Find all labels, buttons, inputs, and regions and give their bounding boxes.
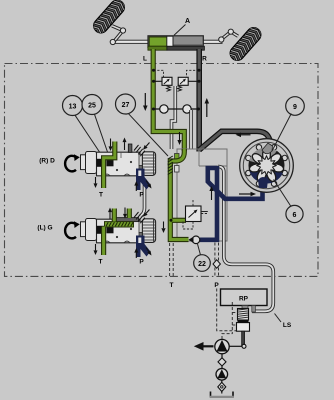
leader 9 (272, 114, 291, 152)
relief connection lines (152, 80, 201, 83)
crossover relief valve left (162, 77, 172, 91)
charge pump P2 (216, 369, 228, 381)
label T at boundary (170, 282, 174, 289)
label (L) G (37, 225, 52, 232)
wire: T dashed drop (170, 243, 174, 276)
brake lever navy (R)D (136, 169, 151, 191)
crossover relief valve right (178, 77, 189, 91)
svg-text:LS: LS (283, 322, 292, 329)
flow arrow down (L line) (143, 93, 148, 111)
rotation arrow (R)D (65, 154, 80, 171)
wire: green down to T (L)G (101, 227, 106, 256)
tie rod (112, 40, 222, 43)
rotation arrow (L)G (65, 221, 80, 238)
leader 6 (274, 180, 292, 207)
suction filter diamond (218, 382, 226, 391)
wire: gray pipe to steering unit (199, 131, 272, 153)
ribbed hose stub (L)G (134, 212, 145, 223)
flow arrow up at (R)D (123, 138, 127, 151)
leader 27 (129, 114, 169, 156)
label R (202, 56, 207, 63)
svg-text:P: P (139, 192, 144, 199)
flow arrow diagonal into (L)G (143, 210, 150, 217)
label LS with leader (275, 314, 292, 330)
label (R) D (39, 158, 55, 165)
ribbed hose stub (R)D (134, 145, 145, 156)
wheel motor (L)G (81, 219, 156, 243)
svg-text:T: T (99, 192, 103, 199)
priority valve rod (242, 331, 245, 346)
wire: filter to tank (221, 392, 223, 394)
test fitting 22 (189, 236, 200, 244)
flow arrow up (P in valve) (209, 186, 213, 200)
cylinder piston (167, 36, 173, 47)
svg-text:P: P (214, 282, 219, 289)
callout circle 22 (194, 255, 211, 272)
svg-text:A: A (185, 18, 190, 25)
callout circle 6 (286, 205, 303, 222)
cylinder bottom plate gray (167, 46, 205, 50)
wire: green stub 2 (L)G (127, 209, 132, 219)
wire: navy at fitting line (200, 238, 218, 243)
wire: LS pipe (218, 167, 273, 312)
gerotor steering metering unit (240, 139, 294, 193)
svg-text:25: 25 (88, 103, 96, 110)
right front tire (224, 23, 266, 68)
wire: L line green vertical from cylinder to elbow (153, 49, 184, 151)
wire: green stub 1 (L)G (112, 209, 117, 222)
svg-text:R: R (202, 56, 207, 63)
label L (143, 56, 147, 63)
flow arrow down (L)G port (123, 208, 127, 219)
callout circle 25 (82, 95, 102, 115)
wire: green elbow into hose 27 (170, 149, 184, 165)
label P at boundary (214, 282, 219, 289)
flushing valve box (170, 206, 202, 222)
label P under (R)D (139, 192, 144, 199)
check valve line (152, 105, 200, 113)
svg-text:22: 22 (198, 261, 206, 268)
wire: green ribbed hose vertical (170, 163, 188, 240)
wire: green banjo upper motor (104, 142, 115, 189)
left steering knuckle (110, 26, 125, 45)
valve pilot dashed left (232, 302, 237, 334)
gerotor navy outlet blob (258, 177, 268, 188)
flow arrow up at brake (L)G (134, 248, 138, 258)
svg-text:9: 9 (293, 104, 297, 111)
flow arrow up (R line) (205, 98, 210, 117)
left front tire (87, 0, 129, 40)
priority valve spring box (238, 309, 249, 321)
callout circle 13 (63, 96, 83, 116)
svg-text:T: T (170, 282, 174, 289)
svg-text:P: P (139, 259, 144, 266)
svg-text:L: L (143, 56, 147, 63)
label T under (R)D (99, 192, 103, 199)
svg-text:T: T (99, 259, 103, 266)
label P under (L)G (139, 259, 144, 266)
wire: center T pipe from relief block (172, 86, 176, 149)
RP outlet stub (242, 306, 248, 309)
relief pilot dashed lines (152, 69, 201, 77)
svg-text:27: 27 (122, 102, 130, 109)
wheel motor (R)D (81, 152, 156, 176)
flow arrow left on gray pipe (236, 133, 251, 138)
label A with leader (174, 18, 190, 35)
junction node (242, 344, 246, 348)
wire: pump to check (221, 354, 223, 359)
flow arrow up (L)G port (108, 208, 112, 220)
pump pilot dashed (222, 334, 232, 339)
wire: navy P vertical (215, 166, 220, 242)
wire: P dashed drop (215, 243, 219, 277)
flow arrow diag at brake (R)D (146, 181, 152, 189)
priority valve piston (238, 320, 249, 323)
leader 25 (95, 114, 108, 152)
wire: R line gray vertical from cylinder (196, 49, 202, 152)
flow arrow down into (R)D port (109, 139, 113, 152)
cylinder left chamber (green) (149, 37, 167, 46)
flushing valve pilot dashed (183, 200, 208, 229)
valve manifold body (175, 149, 228, 241)
hose rib marks (168, 156, 173, 175)
brake lever navy (L)G (136, 236, 151, 258)
flow arrow up at brake (R)D (134, 181, 138, 191)
gray fitting (R)D (128, 144, 132, 152)
svg-text:(L) G: (L) G (37, 225, 52, 232)
svg-text:6: 6 (293, 212, 297, 219)
cylinder bottom plate green (148, 46, 167, 50)
svg-text:RP: RP (239, 296, 249, 303)
flow arrow down to T (L)G (94, 244, 98, 255)
wire: brake interconnect pipe (141, 179, 145, 216)
flow arrow down to T (R)D (94, 177, 98, 188)
flow arrow down on hose (161, 222, 165, 234)
wire: second service white pipe (189, 110, 193, 149)
right steering knuckle (219, 29, 238, 42)
enclosure dashed boundary box (5, 64, 319, 277)
label T under (L)G (99, 259, 103, 266)
steering cylinder A body (148, 36, 203, 48)
band rib marks (106, 222, 133, 226)
priority valve cylinder (237, 323, 250, 332)
orifice diamond on P (213, 260, 220, 268)
reservoir RP (221, 289, 268, 306)
wire: green branch to flushing valve (172, 218, 186, 223)
wire: check to pump2 (221, 366, 223, 369)
callout circle 9 (286, 97, 305, 116)
RP right stub (252, 306, 256, 313)
leader 13 (75, 115, 100, 152)
pump output arrow left (194, 342, 214, 351)
check diamond 1 (218, 358, 226, 366)
wire: P dashed below boundary (217, 289, 237, 331)
callout circle 27 (116, 94, 136, 114)
wire: pump2 to filter (221, 380, 223, 383)
hydraulic pump P1 (215, 339, 229, 353)
wire: navy pipe valve to gerotor (208, 168, 263, 199)
svg-text:(R) D: (R) D (39, 158, 55, 165)
flow arrow down at body inlet (177, 132, 181, 145)
svg-text:13: 13 (69, 104, 77, 111)
leader 22 (198, 244, 201, 255)
striped supply band (L)G (105, 218, 139, 227)
gerotor gray inlet blob (262, 143, 273, 154)
wire: rod junction to pump (230, 345, 243, 347)
flow arrow diagonal into (R)D (143, 143, 150, 150)
flow arrow diag at brake (L)G (146, 248, 152, 256)
tank symbol (210, 392, 234, 398)
flow arrow right on navy pipe (239, 192, 256, 197)
